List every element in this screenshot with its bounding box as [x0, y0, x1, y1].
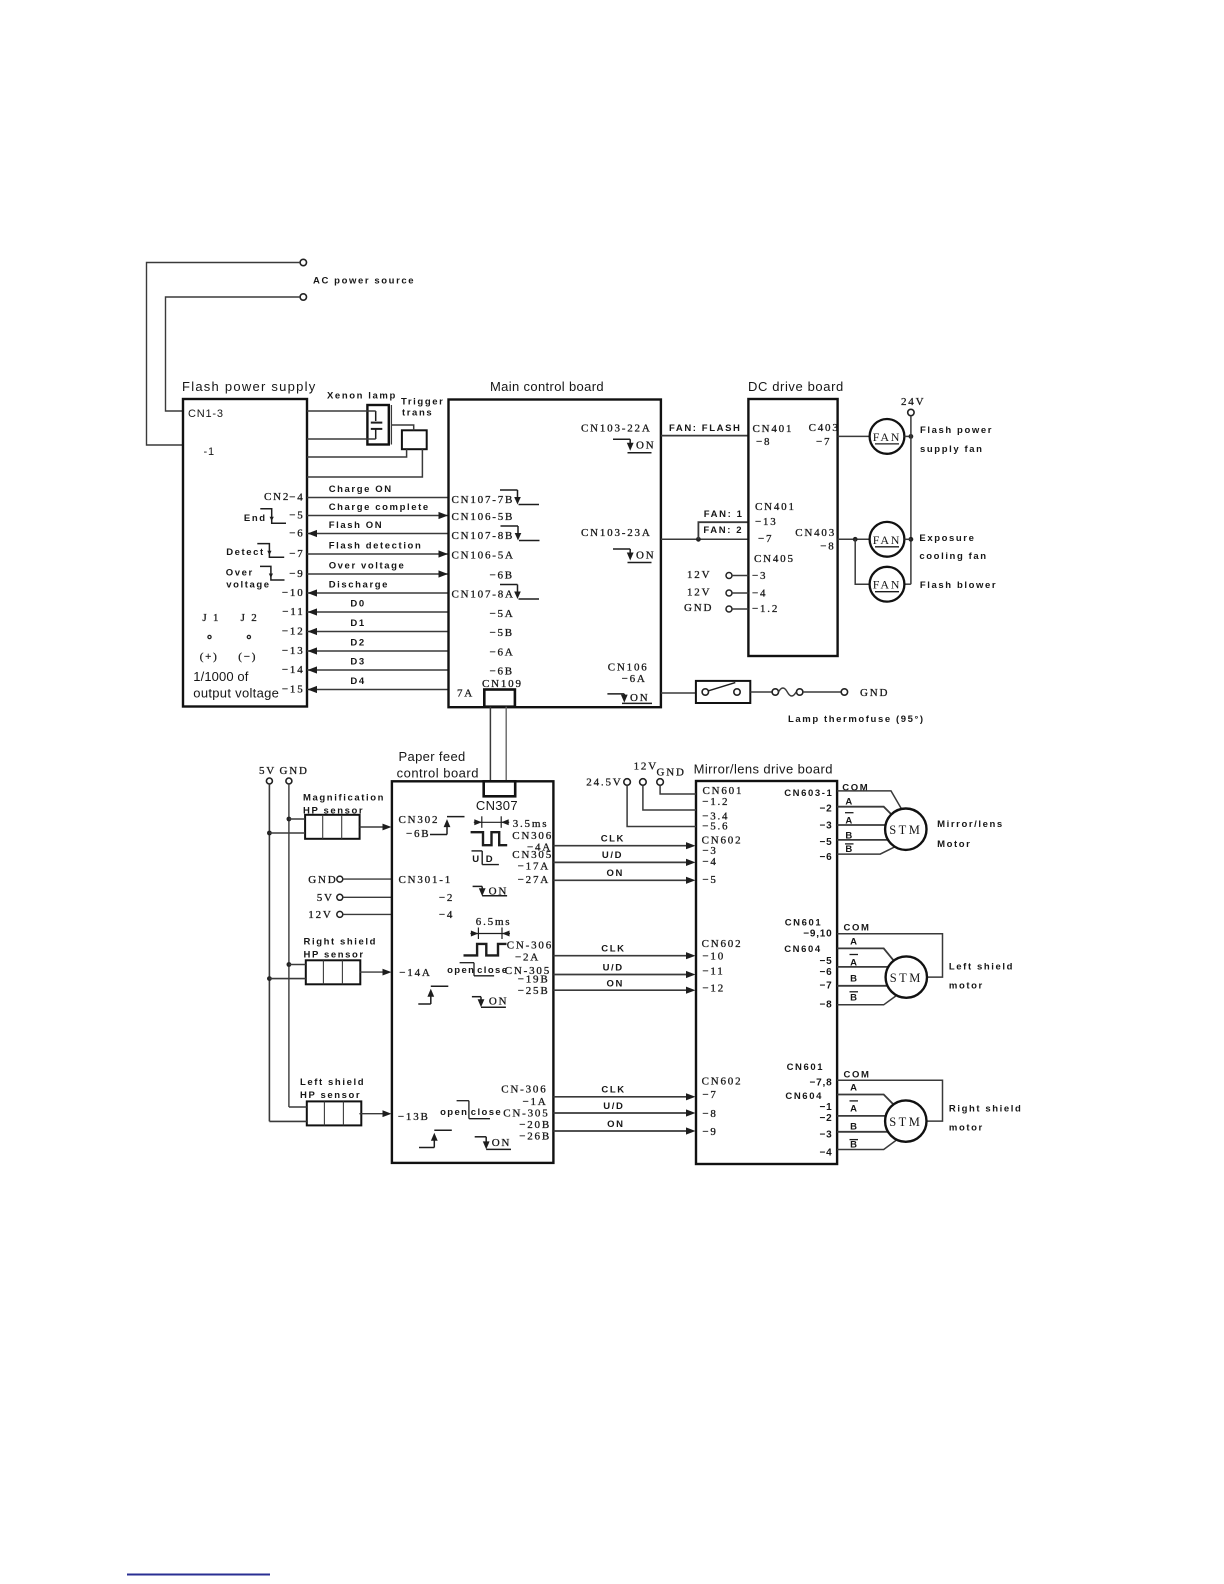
svg-text:CN106-5B: CN106-5B: [452, 511, 515, 523]
svg-text:12V: 12V: [634, 761, 658, 773]
svg-text:CN602: CN602: [702, 938, 743, 950]
svg-text:−8: −8: [702, 1108, 717, 1120]
svg-text:control board: control board: [397, 766, 479, 781]
svg-text:−10: −10: [702, 951, 725, 963]
svg-text:Mirror/lens: Mirror/lens: [937, 819, 1004, 830]
svg-text:GND: GND: [860, 687, 889, 699]
svg-text:Xenon lamp: Xenon lamp: [327, 391, 397, 402]
svg-text:CN307: CN307: [476, 798, 518, 813]
svg-text:6.5ms: 6.5ms: [476, 916, 512, 928]
svg-text:CN302: CN302: [399, 814, 440, 826]
svg-text:Right shield: Right shield: [949, 1104, 1023, 1115]
svg-text:−15: −15: [282, 684, 305, 696]
svg-text:output voltage: output voltage: [193, 686, 279, 701]
svg-text:HP sensor: HP sensor: [300, 1090, 361, 1101]
svg-text:Flash detection: Flash detection: [329, 541, 423, 552]
svg-text:trans: trans: [402, 408, 433, 419]
svg-text:Discharge: Discharge: [329, 580, 389, 591]
svg-text:CN405: CN405: [754, 553, 795, 565]
svg-text:open: open: [447, 965, 475, 976]
svg-text:supply fan: supply fan: [920, 444, 984, 455]
svg-text:-1: -1: [204, 446, 215, 458]
svg-text:D4: D4: [350, 676, 365, 687]
svg-text:−2: −2: [819, 1113, 832, 1124]
svg-text:Flash power: Flash power: [920, 425, 993, 436]
svg-text:U/D: U/D: [603, 963, 624, 974]
svg-text:−5: −5: [289, 510, 304, 522]
svg-text:FAN: 1: FAN: 1: [704, 509, 744, 520]
svg-text:−26B: −26B: [519, 1131, 551, 1143]
svg-text:−9: −9: [289, 568, 304, 580]
svg-text:−1: −1: [819, 1102, 832, 1113]
svg-text:A: A: [850, 1103, 858, 1114]
svg-text:Left shield: Left shield: [949, 962, 1014, 973]
svg-text:−17A: −17A: [518, 860, 550, 872]
svg-text:−6A: −6A: [490, 647, 515, 659]
svg-text:−1.2: −1.2: [702, 796, 729, 808]
svg-text:CN107-8A: CN107-8A: [452, 589, 515, 601]
svg-text:B: B: [850, 992, 858, 1003]
svg-text:Flash blower: Flash blower: [920, 580, 997, 591]
svg-text:CN305: CN305: [512, 849, 553, 861]
svg-text:CN401: CN401: [753, 423, 794, 435]
svg-text:FAN: FLASH: FAN: FLASH: [669, 423, 741, 434]
svg-text:STM: STM: [889, 823, 922, 837]
svg-text:−3: −3: [752, 570, 767, 582]
svg-text:−14A: −14A: [399, 967, 431, 979]
svg-text:−4: −4: [289, 492, 304, 504]
svg-text:D1: D1: [350, 618, 365, 629]
svg-text:ON: ON: [492, 1137, 512, 1149]
svg-text:motor: motor: [949, 1123, 984, 1134]
svg-text:−7: −7: [758, 533, 773, 545]
svg-text:−25B: −25B: [518, 985, 550, 997]
svg-text:−14: −14: [282, 664, 305, 676]
svg-text:−10: −10: [282, 587, 305, 599]
svg-text:−4: −4: [819, 1147, 832, 1158]
svg-text:−8: −8: [819, 1000, 832, 1011]
svg-text:CN107-7B: CN107-7B: [452, 494, 515, 506]
svg-text:D3: D3: [350, 657, 365, 668]
svg-text:−2A: −2A: [515, 951, 540, 963]
svg-text:Charge complete: Charge complete: [329, 502, 430, 513]
svg-text:−6B: −6B: [406, 828, 430, 840]
svg-text:close: close: [471, 1107, 502, 1118]
svg-text:12V: 12V: [687, 569, 711, 581]
svg-text:Main control board: Main control board: [490, 379, 604, 394]
svg-text:7A: 7A: [457, 688, 474, 700]
svg-text:CN604: CN604: [784, 944, 822, 955]
svg-text:−6: −6: [819, 967, 832, 978]
svg-text:24V: 24V: [901, 396, 925, 408]
svg-text:−6B: −6B: [490, 666, 514, 678]
svg-text:CN-306: CN-306: [501, 1084, 547, 1096]
svg-text:CN401: CN401: [755, 501, 796, 513]
svg-text:FAN: FAN: [873, 578, 902, 592]
svg-text:−6: −6: [819, 852, 832, 863]
svg-text:ON: ON: [636, 440, 656, 452]
svg-text:CN604: CN604: [785, 1091, 823, 1102]
svg-text:CN601: CN601: [787, 1062, 825, 1073]
svg-text:A: A: [850, 936, 858, 947]
svg-text:AC power source: AC power source: [313, 276, 415, 287]
svg-text:Charge ON: Charge ON: [329, 484, 393, 495]
svg-text:CN106-5A: CN106-5A: [452, 550, 515, 562]
svg-text:CN107-8B: CN107-8B: [452, 530, 515, 542]
svg-text:−5A: −5A: [490, 608, 515, 620]
svg-text:DC drive board: DC drive board: [748, 379, 844, 394]
svg-text:J 2: J 2: [241, 612, 259, 624]
svg-text:Exposure: Exposure: [919, 533, 975, 544]
svg-text:12V: 12V: [308, 909, 332, 921]
svg-text:5V: 5V: [259, 765, 276, 777]
svg-text:Lamp thermofuse (95°): Lamp thermofuse (95°): [788, 714, 925, 725]
svg-text:3.5ms: 3.5ms: [513, 818, 549, 830]
svg-text:−5: −5: [819, 837, 832, 848]
svg-text:B: B: [850, 973, 858, 984]
svg-text:−4: −4: [752, 588, 767, 600]
svg-text:CLK: CLK: [601, 834, 625, 845]
svg-text:Left shield: Left shield: [300, 1077, 365, 1088]
svg-text:CN301-1: CN301-1: [399, 874, 453, 886]
svg-text:CLK: CLK: [601, 944, 625, 955]
svg-text:24.5V: 24.5V: [586, 777, 622, 789]
svg-text:Flash ON: Flash ON: [329, 520, 384, 531]
svg-text:12V: 12V: [687, 587, 711, 599]
svg-text:close: close: [477, 965, 508, 976]
svg-text:COM: COM: [844, 1069, 871, 1080]
svg-text:CN103-23A: CN103-23A: [581, 527, 652, 539]
svg-text:−2: −2: [819, 804, 832, 815]
svg-text:FAN: FAN: [873, 533, 902, 547]
svg-text:−7: −7: [702, 1089, 717, 1101]
svg-text:−5.6: −5.6: [702, 821, 729, 833]
svg-text:Over: Over: [226, 568, 254, 579]
svg-text:−20B: −20B: [519, 1119, 551, 1131]
svg-text:−3: −3: [819, 1130, 832, 1141]
svg-text:−7: −7: [289, 548, 304, 560]
svg-text:−4: −4: [702, 856, 717, 868]
svg-text:A: A: [850, 1083, 858, 1094]
svg-text:CN603-1: CN603-1: [784, 788, 833, 799]
svg-text:−12: −12: [702, 983, 725, 995]
svg-text:−5B: −5B: [490, 627, 514, 639]
svg-text:U/D: U/D: [603, 1101, 624, 1112]
svg-text:D0: D0: [350, 599, 365, 610]
svg-text:5V: 5V: [317, 892, 334, 904]
svg-text:−5: −5: [702, 874, 717, 886]
svg-text:CN602: CN602: [702, 1076, 743, 1088]
svg-text:−6: −6: [289, 528, 304, 540]
svg-text:CN-306: CN-306: [507, 940, 553, 952]
svg-text:STM: STM: [890, 971, 923, 985]
svg-text:GND: GND: [657, 767, 686, 779]
svg-text:D: D: [486, 854, 493, 865]
svg-text:Trigger: Trigger: [401, 397, 444, 408]
svg-text:−19B: −19B: [518, 973, 550, 985]
svg-text:U/D: U/D: [602, 850, 623, 861]
svg-text:−11: −11: [282, 606, 304, 618]
svg-text:CN601: CN601: [785, 918, 823, 929]
svg-text:(+): (+): [200, 651, 219, 663]
svg-text:B: B: [850, 1121, 858, 1132]
svg-text:CN106: CN106: [608, 662, 649, 674]
svg-text:−7,8: −7,8: [810, 1078, 833, 1089]
svg-text:ON: ON: [607, 868, 624, 879]
svg-text:J 1: J 1: [202, 612, 220, 624]
svg-text:ON: ON: [630, 692, 650, 704]
svg-text:−3: −3: [819, 820, 832, 831]
svg-text:−13: −13: [282, 645, 305, 657]
svg-text:−1.2: −1.2: [752, 603, 779, 615]
svg-text:CN-305: CN-305: [503, 1108, 549, 1120]
svg-text:1/1000 of: 1/1000 of: [193, 669, 248, 684]
svg-text:−8: −8: [820, 541, 835, 553]
svg-text:Magnification: Magnification: [303, 793, 385, 804]
svg-text:GND: GND: [684, 602, 713, 614]
svg-text:HP sensor: HP sensor: [304, 950, 365, 961]
svg-text:−13B: −13B: [398, 1111, 430, 1123]
svg-text:STM: STM: [889, 1115, 922, 1129]
svg-text:ON: ON: [636, 549, 656, 561]
svg-text:cooling fan: cooling fan: [919, 551, 987, 562]
svg-text:CN1-3: CN1-3: [188, 408, 224, 420]
svg-text:CN103-22A: CN103-22A: [581, 423, 652, 435]
svg-text:D2: D2: [350, 638, 365, 649]
svg-text:−2: −2: [439, 892, 454, 904]
svg-text:Right shield: Right shield: [304, 937, 378, 948]
svg-text:Motor: Motor: [937, 839, 971, 850]
svg-text:−7: −7: [816, 436, 831, 448]
svg-text:−9: −9: [702, 1126, 717, 1138]
svg-text:End: End: [244, 513, 267, 524]
svg-text:−13: −13: [755, 516, 778, 528]
svg-text:GND: GND: [280, 765, 309, 777]
svg-text:(−): (−): [238, 651, 257, 663]
svg-text:Paper feed: Paper feed: [399, 749, 466, 764]
svg-text:COM: COM: [842, 783, 869, 794]
svg-text:Detect: Detect: [226, 547, 265, 558]
svg-text:−6B: −6B: [490, 570, 514, 582]
svg-text:−12: −12: [282, 626, 305, 638]
svg-text:U: U: [472, 854, 479, 865]
svg-text:−8: −8: [756, 436, 771, 448]
svg-text:−27A: −27A: [518, 874, 550, 886]
svg-text:CN306: CN306: [512, 830, 553, 842]
svg-text:Over voltage: Over voltage: [329, 561, 406, 572]
svg-text:FAN: 2: FAN: 2: [703, 525, 743, 536]
svg-text:Mirror/lens drive board: Mirror/lens drive board: [694, 762, 833, 777]
svg-text:−4: −4: [439, 909, 454, 921]
svg-text:−5: −5: [819, 956, 832, 967]
svg-text:GND: GND: [308, 874, 337, 886]
svg-text:−9,10: −9,10: [803, 928, 832, 939]
svg-text:−7: −7: [819, 980, 832, 991]
svg-text:−1A: −1A: [522, 1096, 547, 1108]
svg-text:COM: COM: [844, 922, 871, 933]
svg-text:ON: ON: [607, 979, 624, 990]
svg-text:ON: ON: [489, 996, 509, 1008]
svg-text:C403: C403: [809, 422, 840, 434]
svg-text:−6A: −6A: [622, 673, 647, 685]
svg-text:FAN: FAN: [873, 430, 902, 444]
svg-text:CLK: CLK: [601, 1085, 625, 1096]
svg-text:motor: motor: [949, 981, 984, 992]
svg-text:open: open: [440, 1107, 468, 1118]
svg-text:−11: −11: [702, 966, 724, 978]
svg-text:CN403: CN403: [795, 527, 836, 539]
svg-text:Flash power supply: Flash power supply: [182, 379, 317, 394]
svg-text:CN2: CN2: [264, 491, 290, 503]
svg-text:ON: ON: [607, 1119, 624, 1130]
svg-text:voltage: voltage: [226, 580, 270, 591]
